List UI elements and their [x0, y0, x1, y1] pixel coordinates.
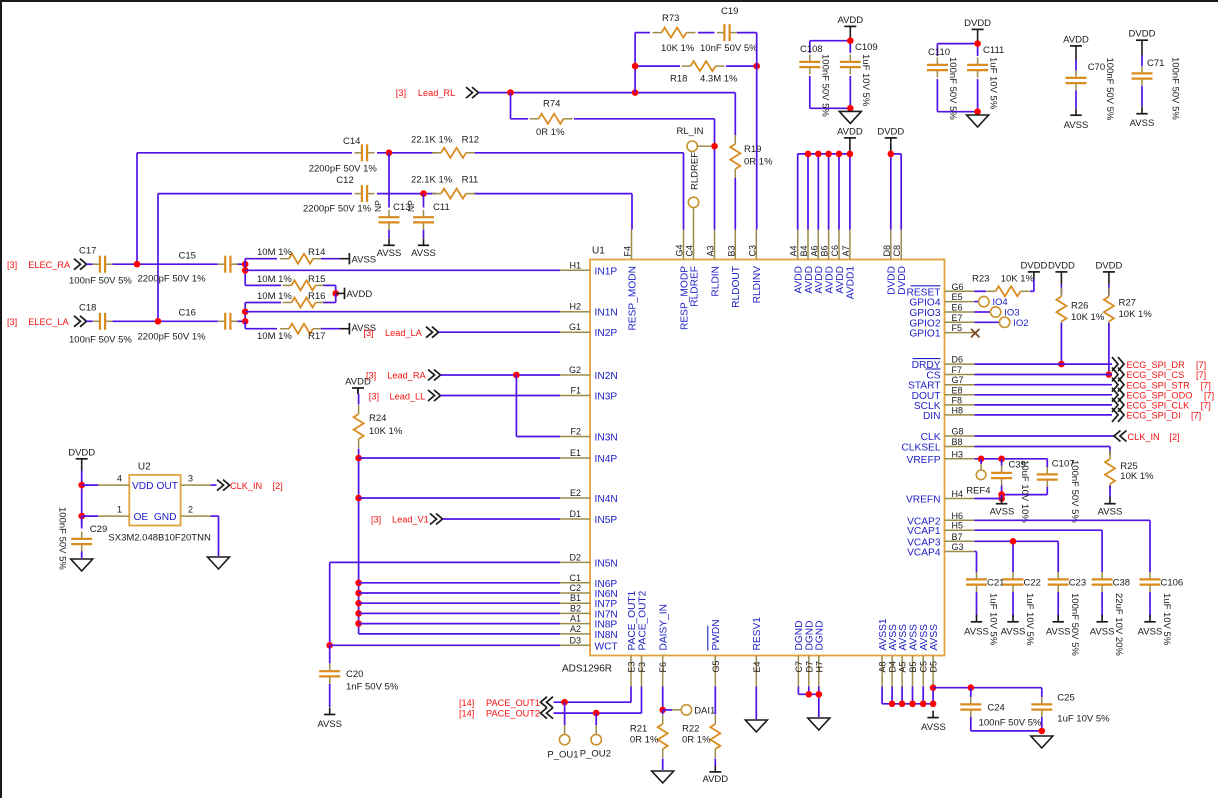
U2 pin 1 OE: [82, 505, 149, 523]
svg-text:R73: R73: [662, 13, 679, 24]
svg-text:[7]: [7]: [1201, 401, 1211, 411]
wire net R73/C19 row: [635, 32, 757, 34]
off-page connector PACE_OUT1 [14]: [459, 697, 553, 708]
svg-text:100nF 50V 5%: 100nF 50V 5%: [1170, 57, 1181, 120]
svg-text:H7: H7: [814, 661, 824, 673]
capacitor C11 (NP) on RESP_MODN node: [406, 194, 450, 238]
svg-text:DVDD: DVDD: [887, 266, 898, 295]
U1 pin A1 IN8P (left): [560, 614, 617, 631]
port P_OU1: [547, 702, 578, 760]
svg-text:DAI1: DAI1: [694, 705, 715, 716]
wire net RLD left vertical: [634, 33, 636, 93]
svg-text:C111: C111: [983, 45, 1004, 56]
power AVDD rail (pins A4-A7): [798, 126, 863, 229]
svg-text:A5: A5: [898, 661, 908, 672]
svg-text:NP: NP: [373, 200, 383, 212]
svg-text:R21: R21: [630, 724, 647, 735]
U1 pin E1 IN4P (left): [560, 448, 617, 465]
off-page connector ELEC_RA [3]: [7, 259, 87, 270]
svg-text:P_OU2: P_OU2: [580, 748, 611, 759]
svg-text:AVSS: AVSS: [1001, 627, 1026, 638]
svg-text:AVSS: AVSS: [352, 255, 377, 266]
svg-text:ECG_SPI_CS: ECG_SPI_CS: [1127, 370, 1185, 380]
svg-text:VREFP: VREFP: [907, 455, 941, 466]
svg-text:0R 1%: 0R 1%: [682, 735, 711, 746]
svg-text:[3]: [3]: [396, 88, 406, 98]
svg-text:R27: R27: [1119, 298, 1136, 309]
U1 pin G3 VCAP4 (right): [907, 542, 974, 559]
svg-text:C7: C7: [794, 661, 804, 673]
svg-text:R14: R14: [308, 247, 325, 258]
resistor R23 (10K 1%): [972, 273, 1035, 296]
svg-text:D3: D3: [569, 635, 581, 645]
svg-text:IN2N: IN2N: [595, 371, 618, 382]
off-page connector ECG_SPI_DI [7]: [975, 408, 1202, 422]
svg-text:AVSS: AVSS: [1098, 507, 1123, 518]
junction dots U2 supply: [78, 482, 85, 520]
junction dots R24 bus: [355, 455, 362, 627]
svg-text:G1: G1: [569, 322, 581, 332]
svg-text:RESV1: RESV1: [752, 617, 763, 651]
resistor R25 (10K 1%): [1105, 450, 1154, 497]
junction dots ELEC_LA node: [155, 318, 249, 325]
svg-text:B3: B3: [726, 245, 736, 256]
svg-text:DVDD: DVDD: [1020, 260, 1047, 271]
off-page connector ECG_SPI_ODO [7]: [975, 388, 1215, 402]
svg-text:AVSS: AVSS: [964, 627, 989, 638]
U1 pin G7 START (right): [908, 375, 974, 392]
svg-text:100nF 50V 5%: 100nF 50V 5%: [57, 507, 68, 570]
svg-text:AVSS: AVSS: [1064, 120, 1089, 131]
svg-text:B8: B8: [952, 437, 963, 447]
svg-text:B2: B2: [570, 603, 581, 613]
capacitor C38 (22uF 10V 20%): [1092, 567, 1130, 656]
capacitor C19 (10nF 50V 5%): [700, 6, 758, 54]
svg-text:A8: A8: [878, 661, 888, 672]
svg-text:B5: B5: [908, 661, 918, 672]
off-page connector CLK_IN [2] (U2 out): [217, 480, 283, 491]
svg-text:2200pF 50V 1%: 2200pF 50V 1%: [138, 332, 207, 343]
svg-text:WCT: WCT: [595, 641, 618, 652]
svg-text:PACE_OUT1: PACE_OUT1: [627, 590, 638, 650]
capacitor C15 (2200pF 50V 1%): [138, 251, 238, 285]
svg-text:C38: C38: [1113, 578, 1130, 589]
svg-text:H1: H1: [569, 260, 581, 270]
svg-text:R74: R74: [543, 99, 560, 110]
svg-text:SX3M2.048B10F20TNN: SX3M2.048B10F20TNN: [108, 533, 211, 544]
svg-text:CLK_IN: CLK_IN: [1128, 432, 1160, 442]
svg-text:F3: F3: [637, 662, 647, 673]
power AVDD (R24 top): [345, 377, 371, 395]
wire net IN4N (to E2): [359, 497, 560, 499]
svg-text:3: 3: [188, 474, 193, 484]
wire net RESV1 (E4): [755, 687, 757, 720]
svg-text:100nF 50V 5%: 100nF 50V 5%: [69, 335, 132, 346]
svg-text:R24: R24: [369, 413, 386, 424]
U1 pin D7 DGND (bottom): [804, 621, 815, 687]
svg-text:R12: R12: [462, 135, 479, 146]
U1 pin H4 VREFN (right): [906, 489, 975, 506]
ground AVSS (C22): [1001, 615, 1026, 638]
resistor R74 (0R 1%): [530, 99, 573, 139]
svg-text:AVDD: AVDD: [345, 377, 371, 388]
capacitor C20 (1nF 50V 5%): [319, 645, 399, 692]
svg-text:C19: C19: [721, 6, 738, 17]
svg-text:AVDD: AVDD: [347, 289, 373, 300]
off-page connector ECG_SPI_STR [7]: [975, 378, 1211, 392]
svg-text:DAISY_IN: DAISY_IN: [659, 604, 670, 650]
svg-text:1uF 10V 5%: 1uF 10V 5%: [988, 57, 999, 110]
junction dot C24 top: [968, 684, 975, 691]
wire net IN1N (to H2): [245, 311, 560, 313]
ground AVSS (C106): [1138, 615, 1163, 638]
port P_OU2: [580, 713, 611, 759]
junction dot VCAP3 branch: [1010, 538, 1017, 545]
svg-text:E6: E6: [952, 303, 963, 313]
svg-text:H3: H3: [952, 449, 964, 459]
U1 pin E4 RESV1 (bottom): [752, 617, 763, 687]
svg-text:CLKSEL: CLKSEL: [901, 443, 940, 454]
svg-text:NP: NP: [406, 200, 416, 212]
off-page connector ELEC_LA [3]: [7, 316, 87, 327]
svg-text:VCAP1: VCAP1: [907, 526, 941, 537]
U1 pin E5 GPIO4 (right): [909, 292, 974, 309]
capacitor C17 (100nF 50V 5%): [69, 246, 132, 287]
off-page connector ECG_SPI_CLK [7]: [975, 398, 1211, 412]
svg-text:Lead_V1: Lead_V1: [392, 515, 429, 525]
junction dots DGND: [806, 691, 823, 698]
U1 pin H7 DGND (bottom): [814, 621, 825, 687]
svg-text:OUT: OUT: [156, 481, 178, 492]
wire net DVDD decouple rails: [937, 44, 977, 112]
svg-text:GPIO1: GPIO1: [909, 329, 940, 340]
capacitor C12 (2200pF 50V 1%): [303, 175, 375, 215]
off-page connector Lead_LA [3]: [363, 327, 438, 338]
resistor R12 (22.1K 1%): [411, 135, 479, 158]
power DVDD (C110/C111): [964, 18, 991, 44]
svg-text:RLDOUT: RLDOUT: [731, 266, 742, 308]
U1 pin A3 RLDIN (top): [706, 230, 722, 297]
U1 pin H5 VCAP1 (right): [907, 521, 974, 538]
U1 pin C5 AVSS (bottom): [919, 624, 930, 687]
wire net RLDOUT (Lead_RL to B3 via R19): [734, 93, 736, 230]
svg-text:C12: C12: [336, 175, 353, 186]
svg-text:IN4N: IN4N: [595, 494, 618, 505]
svg-text:AVSS: AVSS: [1130, 118, 1155, 129]
svg-text:IN1P: IN1P: [595, 266, 618, 277]
ground (C29): [71, 559, 93, 571]
svg-text:DVDD: DVDD: [1048, 260, 1075, 271]
svg-text:[7]: [7]: [1191, 411, 1201, 421]
capacitor C107 (100nF 50V 5%): [1037, 459, 1080, 524]
junction dot Lead_RA node: [513, 372, 520, 379]
svg-text:D2: D2: [569, 552, 581, 562]
U1 pin D6 DRDY (right): [912, 355, 975, 372]
U1 pin F7 CS (right): [926, 365, 975, 382]
svg-text:C25: C25: [1057, 693, 1074, 704]
junction dots VREFN node: [998, 491, 1005, 502]
svg-text:D4: D4: [888, 661, 898, 673]
svg-text:1uF 10V 5%: 1uF 10V 5%: [1161, 593, 1172, 646]
svg-text:PWDN: PWDN: [711, 619, 722, 650]
off-page connector PACE_OUT2 [14]: [459, 708, 553, 719]
port DAI1: [663, 705, 716, 717]
svg-text:AVSS: AVSS: [317, 719, 342, 730]
power DVDD (R27): [1095, 260, 1122, 284]
ground (AVDD decouple): [839, 111, 861, 123]
svg-text:D8: D8: [882, 245, 892, 257]
svg-text:R22: R22: [682, 724, 699, 735]
svg-text:C20: C20: [346, 669, 363, 680]
svg-text:100nF 50V 5%: 100nF 50V 5%: [979, 718, 1042, 729]
svg-text:Lead_RL: Lead_RL: [418, 88, 455, 98]
wire net RLDIN (to A3): [714, 119, 716, 230]
svg-text:C22: C22: [1024, 578, 1041, 589]
svg-text:[7]: [7]: [1196, 370, 1206, 380]
U1 pin C8 DVDD (top): [892, 230, 908, 295]
resistor R26 (10K 1%): [1056, 284, 1104, 364]
svg-text:10M 1%: 10M 1%: [257, 291, 292, 302]
svg-text:Lead_RA: Lead_RA: [387, 370, 426, 380]
svg-text:G8: G8: [952, 427, 964, 437]
svg-text:D1: D1: [569, 509, 581, 519]
wire net WCT (to D3): [330, 644, 560, 646]
U2 pin 4 VDD: [82, 474, 154, 492]
U1 pin A2 IN8N (left): [560, 624, 618, 641]
svg-text:C110: C110: [928, 47, 950, 58]
ground AVSS (C38): [1090, 615, 1115, 638]
svg-text:H2: H2: [569, 302, 581, 312]
svg-text:AVDD: AVDD: [837, 15, 863, 26]
capacitor C14 (2200pF 50V 1%): [309, 136, 378, 175]
svg-text:[7]: [7]: [1196, 360, 1206, 370]
ground AVSS (pin bus): [921, 711, 946, 733]
wire net RESP_MODN (C12 row to F4): [158, 194, 632, 322]
svg-text:E4: E4: [752, 661, 762, 672]
U1 pin F3 PACE_OUT2 (bottom): [637, 590, 648, 686]
svg-text:C71: C71: [1147, 58, 1164, 69]
wire net IN4P (to E1): [359, 457, 560, 459]
wire net DGND (C7,D7,H7): [798, 687, 818, 718]
svg-text:C21: C21: [987, 578, 1004, 589]
svg-text:E3: E3: [627, 661, 637, 672]
resistor R22 (0R 1%): [682, 715, 720, 766]
svg-text:C3: C3: [747, 245, 757, 257]
U2 pin 3 OUT: [156, 474, 216, 492]
svg-text:100nF 50V 5%: 100nF 50V 5%: [1069, 593, 1080, 656]
off-page connector Lead_RL [3]: [396, 87, 479, 98]
oscillator U2 body: [108, 462, 211, 544]
svg-text:H6: H6: [952, 511, 964, 521]
svg-text:F8: F8: [952, 395, 963, 405]
svg-text:R17: R17: [308, 331, 325, 342]
svg-text:RESP_MODN: RESP_MODN: [627, 266, 638, 331]
off-page connector Lead_RA [3]: [366, 370, 441, 381]
svg-text:ECG_SPI_STR: ECG_SPI_STR: [1127, 380, 1191, 390]
U1 pin C7 DGND (bottom): [794, 621, 805, 687]
svg-text:1: 1: [117, 505, 122, 515]
svg-text:2200pF 50V 1%: 2200pF 50V 1%: [303, 204, 372, 215]
svg-text:E5: E5: [952, 292, 963, 302]
U1 pin H8 DIN (right): [923, 405, 975, 422]
svg-text:C5: C5: [919, 661, 929, 673]
svg-text:10M 1%: 10M 1%: [257, 247, 292, 258]
U1 pin B8 CLKSEL (right): [901, 437, 974, 454]
svg-text:DVDD: DVDD: [1095, 260, 1122, 271]
svg-text:C2: C2: [569, 583, 581, 593]
wire net R74 branch: [511, 93, 715, 119]
svg-text:IN3N: IN3N: [595, 433, 618, 444]
svg-text:100nF 50V 5%: 100nF 50V 5%: [1104, 58, 1115, 121]
wire net IN2N (Lead_RA to G2): [441, 374, 561, 376]
U1 pin G5 PWDN (bottom): [708, 619, 722, 686]
power AVDD (C108/C109): [837, 15, 863, 41]
svg-text:C16: C16: [179, 308, 196, 319]
capacitor C21 (1uF 10V 5%): [966, 567, 1004, 646]
capacitor C29 (100nF 50V 5%): [57, 507, 108, 570]
power DVDD (U2): [68, 447, 95, 470]
svg-text:[3]: [3]: [7, 317, 17, 327]
junction dots VREFP: [978, 456, 1005, 463]
svg-text:[7]: [7]: [1204, 391, 1214, 401]
svg-text:0R 1%: 0R 1%: [630, 735, 659, 746]
wire net VCAP3 (B7): [975, 541, 1059, 567]
capacitor C23 (100nF 50V 5%): [1048, 567, 1086, 656]
wire net IN2P (Lead_LA to G1): [439, 331, 561, 333]
svg-text:A2: A2: [570, 624, 581, 634]
resistor R17 (10M 1%): [245, 321, 340, 342]
svg-text:A4: A4: [789, 245, 799, 256]
wire net RESP_MODP (C14 row to G4): [137, 153, 684, 264]
port RL_IN: [677, 126, 712, 151]
junction dot C12/C11 node: [420, 190, 427, 197]
junction dots AVSS bus: [889, 684, 937, 707]
resistor R14 (10M 1%): [245, 247, 340, 264]
junction dots ELEC_RA node: [134, 261, 249, 268]
U1 pin H1 IN1P (left): [560, 260, 617, 277]
svg-text:DVDD: DVDD: [877, 126, 904, 137]
svg-text:DGND: DGND: [794, 621, 805, 651]
svg-text:AVSS: AVSS: [1046, 627, 1071, 638]
svg-text:P_OU1: P_OU1: [547, 750, 578, 761]
svg-text:2200pF 50V 1%: 2200pF 50V 1%: [309, 163, 378, 174]
svg-text:AVDD: AVDD: [824, 266, 835, 294]
U1 pin G2 IN2N (left): [560, 365, 618, 382]
svg-text:ELEC_RA: ELEC_RA: [28, 260, 71, 270]
svg-text:AVSS: AVSS: [898, 624, 909, 651]
svg-text:DIN: DIN: [923, 411, 941, 422]
ground AVSS (C21): [964, 615, 989, 638]
svg-text:A3: A3: [706, 245, 716, 256]
capacitor C16 (2200pF 50V 1%): [138, 308, 238, 343]
svg-text:[3]: [3]: [369, 391, 379, 401]
svg-text:C4: C4: [685, 245, 695, 257]
U1 pin C2 IN6N (left): [560, 583, 618, 600]
svg-text:[14]: [14]: [459, 698, 474, 708]
svg-text:VDD: VDD: [132, 481, 154, 492]
svg-text:ECG_SPI_DI: ECG_SPI_DI: [1127, 411, 1181, 421]
junction dot PACE_OUT1: [561, 699, 568, 706]
U1 pin G6 RESET (right): [907, 282, 975, 299]
svg-text:IN1N: IN1N: [595, 308, 618, 319]
svg-text:OE: OE: [134, 512, 149, 523]
svg-text:D6: D6: [952, 355, 964, 365]
IC U1 ADS1296R body: [562, 246, 945, 675]
svg-text:E2: E2: [570, 488, 581, 498]
svg-text:R23: R23: [972, 273, 989, 284]
junction dots C111 line: [974, 40, 981, 115]
capacitor C25 (1uF 10V 5%): [1031, 688, 1110, 731]
svg-text:[3]: [3]: [371, 515, 381, 525]
svg-text:10M 1%: 10M 1%: [257, 274, 292, 285]
svg-text:F5: F5: [952, 323, 963, 333]
U1 pin B4 AVDD (top): [799, 230, 815, 294]
U1 pin F2 IN3N (left): [560, 427, 618, 444]
U1 pin G1 IN2P (left): [560, 322, 617, 339]
svg-text:0R 1%: 0R 1%: [744, 157, 773, 168]
svg-text:AVDD: AVDD: [835, 266, 846, 294]
U1 pin B6 AVDD (top): [820, 230, 836, 294]
ground (RESV1): [745, 720, 767, 732]
U1 pin F8 SCLK (right): [914, 395, 975, 412]
off-page connector ECG_SPI_DR [7]: [975, 357, 1207, 371]
svg-text:C18: C18: [79, 303, 96, 314]
ground AVSS (R14, sideways): [340, 253, 376, 266]
U1 pin E8 DOUT (right): [912, 385, 975, 402]
svg-text:C1: C1: [569, 573, 581, 583]
ground (DVDD decouple): [967, 115, 989, 127]
svg-text:RLDREF: RLDREF: [689, 266, 700, 307]
svg-text:AVSS: AVSS: [411, 248, 436, 259]
svg-text:100nF 50V 5%: 100nF 50V 5%: [820, 54, 831, 117]
U1 pin E2 IN4N (left): [560, 488, 618, 505]
wire net IN1P (to H1): [245, 269, 560, 271]
svg-text:E8: E8: [952, 385, 963, 395]
svg-text:ADS1296R: ADS1296R: [562, 664, 612, 675]
capacitor C71 (100nF 50V 5%) DVDD-AVSS: [1129, 29, 1181, 129]
capacitor C13 (NP) on RESP_MODP node: [373, 153, 410, 238]
U1 pin E7 GPIO2 (right): [909, 313, 974, 330]
svg-text:DVDD: DVDD: [68, 447, 95, 458]
svg-text:[2]: [2]: [273, 481, 283, 491]
wire net ELEC_LA row: [113, 320, 246, 322]
svg-text:100nF 50V 5%: 100nF 50V 5%: [69, 276, 132, 287]
svg-text:F7: F7: [952, 365, 963, 375]
svg-text:AVDD: AVDD: [702, 774, 728, 785]
svg-text:IN2P: IN2P: [595, 328, 618, 339]
svg-text:C11: C11: [433, 202, 450, 213]
wire net RESET/R23: [975, 278, 1034, 291]
junction dot RL_IN node: [711, 143, 718, 150]
ground AVSS (R17, sideways): [340, 323, 376, 334]
svg-text:IO2: IO2: [1013, 318, 1028, 329]
svg-text:DVDD: DVDD: [897, 266, 908, 295]
svg-text:[2]: [2]: [1169, 432, 1179, 442]
svg-text:2: 2: [188, 505, 193, 515]
svg-text:A1: A1: [570, 614, 581, 624]
U1 pin B7 VCAP3 (right): [907, 532, 974, 549]
svg-text:B1: B1: [570, 593, 581, 603]
svg-text:ECG_SPI_CLK: ECG_SPI_CLK: [1127, 401, 1191, 411]
capacitor C24 (100nF 50V 5%): [960, 688, 1042, 731]
svg-text:C24: C24: [987, 703, 1004, 714]
U1 pin G4 RESP_MODP (top): [675, 230, 691, 330]
wire net CLKSEL (B8): [975, 447, 1111, 456]
wire net PACE_OUT2 (to F3): [554, 687, 642, 714]
U1 pin C1 IN6P (left): [560, 573, 617, 590]
svg-text:100nF 50V 5%: 100nF 50V 5%: [947, 57, 958, 120]
svg-text:VREFN: VREFN: [906, 495, 941, 506]
